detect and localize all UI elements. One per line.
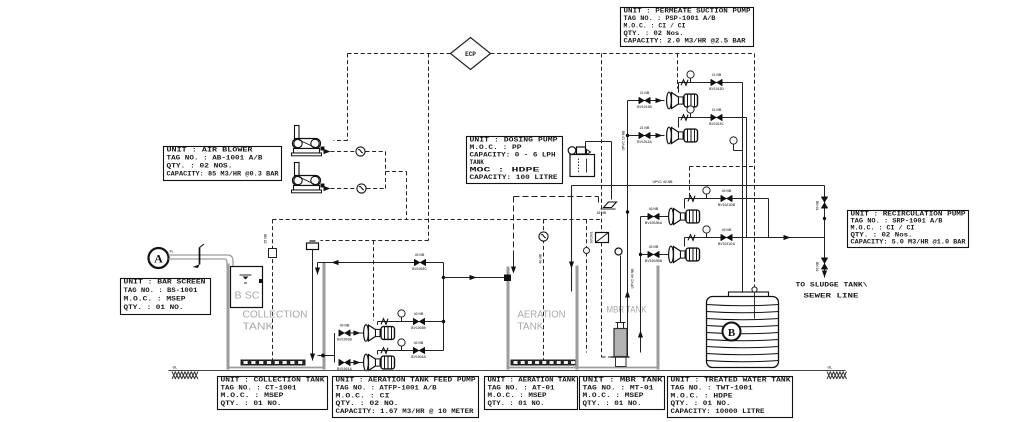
svg-text:40 NB: 40 NB [649, 245, 659, 249]
valve BV1021B sludge top [816, 197, 828, 210]
svg-text:SV1001: SV1001 [590, 231, 594, 243]
svg-text:UPVC 15 NB: UPVC 15 NB [622, 130, 626, 151]
collection tank left wall [227, 264, 230, 370]
control signal wire to ATFP pump [373, 241, 375, 321]
svg-text:TANK: TANK [243, 321, 274, 333]
aeration tank right wall [576, 266, 579, 370]
air blower AB-1001B [292, 163, 331, 193]
info box PSP-1001 permeate suction pump [621, 8, 754, 47]
svg-text:BV1013A: BV1013A [637, 140, 652, 144]
node ATFP header top junction [442, 276, 445, 279]
svg-text:TAG NO. : ATFP-1001 A/B: TAG NO. : ATFP-1001 A/B [336, 385, 437, 392]
svg-text:TAG NO. : CT-1001: TAG NO. : CT-1001 [221, 384, 297, 391]
pump PSP-1001A [667, 92, 698, 109]
aeration tank label [518, 310, 566, 333]
flow indicator on permeate [615, 248, 622, 255]
svg-text:40 NB: 40 NB [340, 324, 350, 328]
svg-text:M.O.C. : PP: M.O.C. : PP [470, 144, 523, 151]
info box BS-1001 bar screen [121, 279, 211, 315]
svg-text:40 NB: 40 NB [539, 253, 543, 263]
TWT level switch [752, 287, 757, 319]
svg-text:QTY. : 01 NO.: QTY. : 01 NO. [488, 400, 545, 407]
check valve ATFP-B [381, 348, 388, 354]
svg-text:UNIT : AERATION TANK: UNIT : AERATION TANK [488, 377, 576, 384]
inlet sewage pipe (double line) [169, 255, 234, 267]
svg-text:M.O.C. : MSEP: M.O.C. : MSEP [221, 392, 285, 399]
svg-text:CAPACITY: 0 - 6 LPH: CAPACITY: 0 - 6 LPH [470, 152, 556, 159]
info box ATFP-1001 aeration tank feed pump [333, 377, 479, 418]
node ATFP header junction [442, 320, 445, 323]
flow arrow PSP-A suction [656, 98, 663, 103]
svg-text:BV1001B: BV1001B [337, 338, 352, 342]
pump SRP-1001A [669, 208, 700, 225]
valve BV1021DB SRP-A discharge [718, 189, 736, 207]
pressure gauge PSP-A [687, 71, 694, 83]
svg-text:UNIT : PERMEATE SUCTION PUM: UNIT : PERMEATE SUCTION PUMP [624, 8, 751, 15]
svg-text:50 NB: 50 NB [816, 261, 820, 271]
svg-text:25 NB: 25 NB [264, 233, 268, 243]
svg-text:MOC : HDPE: MOC : HDPE [470, 167, 541, 174]
svg-text:CAPACITY: 100 LITRE: CAPACITY: 100 LITRE [470, 174, 558, 181]
valve BV1003C on return [412, 253, 427, 271]
collection tank bottom [227, 367, 326, 369]
svg-text:21 NB: 21 NB [640, 91, 650, 95]
valve BV1013B PSP-A suction [637, 91, 652, 109]
info box SRP-1001 recirculation pump [848, 211, 969, 248]
valve BV1002BB SRP-B suction [645, 245, 663, 263]
aeration tank bottom [507, 367, 579, 369]
permeate discharge downcomer [740, 83, 745, 314]
svg-text:UNIT : DOSING PUMP: UNIT : DOSING PUMP [470, 137, 559, 144]
valve BV1003B ATFP-A discharge [411, 312, 426, 330]
svg-text:BV1021DB: BV1021DB [718, 203, 736, 207]
air drop to collection tank diffuser [269, 220, 277, 360]
svg-text:UNIT : COLLECTION TANK: UNIT : COLLECTION TANK [221, 377, 326, 384]
pressure gauge ATFP-B [398, 339, 405, 351]
info box MT-01 MBR tank [580, 377, 665, 410]
info box DP dosing pump [467, 137, 563, 184]
control signal wire to blowers [334, 54, 348, 141]
svg-text:TAG NO. : MT-01: TAG NO. : MT-01 [583, 384, 655, 391]
SRP-A suction wire [641, 216, 670, 218]
permeate wire from module [620, 256, 622, 323]
return wire into collection tank [315, 260, 444, 275]
aeration feed wire [444, 275, 508, 280]
svg-text:21 NB: 21 NB [712, 108, 722, 112]
collection tank level switch [307, 241, 319, 361]
svg-text:TAG NO. : TWT-1001: TAG NO. : TWT-1001 [671, 385, 754, 392]
svg-text:BV1002BA: BV1002BA [645, 221, 663, 225]
MBR tank right wall [657, 266, 660, 370]
svg-text:QTY. : 01 NO.: QTY. : 01 NO. [671, 400, 731, 407]
info box AB-1001 air blower [164, 147, 282, 181]
valve on ATFP-A suction [337, 324, 352, 342]
pressure gauge PSP-B [687, 106, 694, 118]
SRP-A discharge wire [685, 199, 769, 238]
pump ATFP-1001B [364, 354, 395, 371]
svg-text:50 NB: 50 NB [816, 200, 820, 210]
label to sludge tank [796, 282, 869, 300]
info box CT-1001 collection tank [218, 377, 328, 410]
pressure gauge SRP-B [703, 226, 710, 238]
svg-text:TAG NO. : AB-1001 A/B: TAG NO. : AB-1001 A/B [167, 155, 263, 162]
PSP-B suction wire [626, 134, 665, 137]
flexible connector blower B [357, 184, 366, 193]
air header [273, 219, 602, 221]
pressure gauge ATFP-A [398, 310, 405, 322]
SRP-B discharge wire [685, 235, 825, 247]
SRP-B suction wire [639, 253, 670, 256]
air drop to MBR tank diffuser [586, 220, 588, 353]
svg-text:QTY. : 02 Nos.: QTY. : 02 Nos. [624, 30, 684, 37]
svg-text:TO SLUDGE TANK\: TO SLUDGE TANK\ [796, 282, 869, 289]
BSC screen chamber [231, 267, 264, 308]
dosing pump DP [568, 147, 590, 155]
MBR tank bottom [577, 367, 660, 369]
svg-text:40 NB: 40 NB [414, 312, 424, 316]
secondary downcomer [746, 118, 748, 238]
svg-text:BV1002BB: BV1002BB [645, 259, 663, 263]
permeate riser [625, 101, 630, 357]
svg-text:UPVC 40 NB: UPVC 40 NB [631, 268, 635, 289]
off-page connector A [149, 248, 169, 268]
svg-text:TAG NO. : AT-01: TAG NO. : AT-01 [488, 384, 555, 391]
control signal wire ECP horizontal right [491, 53, 755, 55]
PSP-A suction wire [628, 100, 665, 102]
svg-text:BV1003B: BV1003B [411, 326, 426, 330]
wire to ATFP-A [350, 332, 365, 334]
svg-text:BV1013C: BV1013C [709, 122, 724, 126]
svg-text:CAPACITY: 2.0 M3/HR @2.5 BAR: CAPACITY: 2.0 M3/HR @2.5 BAR [624, 37, 746, 44]
svg-text:TAG NO. : BS-1001: TAG NO. : BS-1001 [124, 287, 198, 294]
air pipe blower B to manifold [367, 188, 386, 190]
bar screen symbol [193, 244, 205, 268]
svg-text:TANK: TANK [470, 159, 485, 166]
svg-text:UPVC 40 NB: UPVC 40 NB [653, 180, 674, 184]
tank marker B [723, 323, 741, 341]
ATFP-A discharge wire [378, 322, 444, 326]
svg-text:B: B [728, 327, 736, 339]
svg-text:QTY. : 02 Nos.: QTY. : 02 Nos. [851, 232, 913, 239]
svg-text:B SC: B SC [235, 290, 260, 302]
pump PSP-1001B [667, 127, 698, 144]
control signal wire to collection tank level switch [321, 54, 429, 241]
check valve ATFP-A [381, 319, 388, 325]
PSP-B discharge wire [679, 118, 747, 128]
dosing discharge wire [586, 142, 612, 200]
svg-text:QTY. : 02 NOS.: QTY. : 02 NOS. [167, 163, 233, 170]
info box TWT-1001 treated water tank [668, 377, 793, 418]
recirc suction wire from MBR [638, 217, 643, 353]
air pipe blower A outlet [331, 151, 356, 153]
svg-text:UNIT : TREATED WATER TANK: UNIT : TREATED WATER TANK [671, 377, 792, 384]
svg-text:CAPACITY: 85 M3/HR @0.3 BAR: CAPACITY: 85 M3/HR @0.3 BAR [167, 171, 279, 178]
svg-text:40 NB: 40 NB [414, 341, 424, 345]
svg-text:FL: FL [170, 250, 174, 254]
flexible connector blower A [356, 147, 365, 156]
pump ATFP-1001A [364, 325, 395, 342]
collection tank right wall [323, 263, 326, 370]
svg-text:GL: GL [828, 366, 833, 370]
svg-text:BV1013B: BV1013B [637, 105, 652, 109]
pump SRP-1001B [669, 246, 700, 263]
svg-text:40 NB: 40 NB [722, 189, 732, 193]
svg-text:UNIT : RECIRCULATION PUMP: UNIT : RECIRCULATION PUMP [851, 211, 967, 218]
flow arrow ATFP-B suction [354, 360, 361, 365]
flange at aeration tank wall [504, 275, 511, 282]
valve BV1013D PSP-A discharge [709, 73, 724, 91]
PSP suction riser [627, 101, 629, 186]
svg-text:TAG NO. : SRP-1001 A/B: TAG NO. : SRP-1001 A/B [851, 218, 943, 225]
ground hatch left [172, 372, 198, 380]
svg-text:QTY. : 01 NO.: QTY. : 01 NO. [583, 400, 642, 407]
info box AT-01 aeration tank [485, 377, 578, 410]
valve BV1021A sludge bottom [816, 258, 828, 271]
valve BV1013A PSP-B suction [637, 126, 652, 144]
svg-text:BV1021DA: BV1021DA [718, 242, 736, 246]
svg-text:UNIT : AIR BLOWER: UNIT : AIR BLOWER [167, 147, 254, 154]
svg-text:M.O.C. : MSEP: M.O.C. : MSEP [488, 392, 547, 399]
svg-text:TAG NO. : PSP-1001 A/B: TAG NO. : PSP-1001 A/B [624, 15, 716, 22]
node sludge junction [823, 217, 826, 220]
flex on MBR air drop [584, 248, 590, 254]
check valve PSP-A [681, 80, 688, 86]
air pipe blower B outlet [331, 188, 357, 190]
svg-text:21 NB: 21 NB [640, 126, 650, 130]
dosing tank [570, 155, 595, 177]
svg-text:UNIT : MBR TANK: UNIT : MBR TANK [583, 377, 664, 384]
return drop into aeration tank [569, 186, 574, 292]
svg-text:40 NB: 40 NB [415, 253, 425, 257]
pressure gauge SRP-A [703, 187, 710, 199]
svg-text:CAPACITY: 1.67 M3/HR @ 10 METE: CAPACITY: 1.67 M3/HR @ 10 METER [336, 408, 474, 415]
svg-text:QTY. : 01 NO.: QTY. : 01 NO. [124, 304, 184, 311]
svg-text:M.O.C. : CI / CI: M.O.C. : CI / CI [624, 23, 686, 30]
svg-text:M.O.C. : CI: M.O.C. : CI [336, 392, 391, 399]
valve BV1021DA SRP-B discharge [718, 228, 736, 246]
aeration tank left wall [507, 267, 510, 370]
check valve SRP-A [688, 196, 695, 202]
control signal wire ECP horizontal left [348, 53, 451, 55]
treated water tank TWT-1001 [707, 292, 779, 368]
ATFP suction stub from collection tank [318, 333, 335, 363]
control signal wire to PSP pump [677, 54, 679, 89]
solenoid valve SV-1001 [590, 231, 609, 243]
svg-text:UNIT : AERATION TANK FEED P: UNIT : AERATION TANK FEED PUMP [336, 377, 476, 384]
ATFP-B discharge wire [378, 351, 444, 355]
collection tank label [243, 309, 308, 333]
sludge drain wire [822, 186, 827, 278]
flow arrow ATFP-A suction [354, 330, 361, 335]
air drop to aeration tank diffuser [539, 220, 548, 360]
svg-text:21 NB: 21 NB [712, 73, 722, 77]
svg-text:COLLECTION: COLLECTION [243, 309, 308, 321]
svg-text:QTY. : 01 NO.: QTY. : 01 NO. [221, 400, 282, 407]
svg-text:CAPACITY: 5.0 M3/HR @1.0 BAR: CAPACITY: 5.0 M3/HR @1.0 BAR [851, 239, 966, 246]
gauge on downcomer [730, 137, 743, 151]
svg-text:M.O.C. : CI / CI: M.O.C. : CI / CI [851, 225, 915, 232]
permeate header UPVC 40 NB [572, 185, 825, 187]
aeration tank diffuser [511, 360, 576, 366]
collection tank diffuser [241, 360, 306, 366]
svg-text:BV1013D: BV1013D [709, 87, 724, 91]
valve BV1002BA SRP-A suction [645, 207, 663, 225]
svg-text:ECP: ECP [465, 51, 476, 58]
control signal wire to dosing/solenoid [601, 54, 603, 233]
svg-text:M.O.C. : HDPE: M.O.C. : HDPE [671, 392, 734, 399]
svg-text:M.O.C. : MSEP: M.O.C. : MSEP [124, 296, 187, 303]
svg-text:SEWER LINE: SEWER LINE [804, 293, 860, 300]
control signal branch wire at y166 [690, 167, 755, 197]
flow arrow PSP-B suction [656, 133, 663, 138]
svg-text:18 NB: 18 NB [597, 211, 607, 215]
control signal wire to TWT level switch [754, 54, 756, 287]
valve on ATFP-B suction [337, 359, 352, 371]
PSP-A discharge wire [679, 83, 743, 93]
ECP control panel diamond [451, 38, 491, 70]
air blower AB-1001A [292, 126, 331, 156]
injection quill [597, 202, 617, 215]
svg-text:GL: GL [173, 366, 178, 370]
flange blob over wall [504, 275, 511, 282]
svg-text:CAPACITY: 10000 LITRE: CAPACITY: 10000 LITRE [671, 408, 765, 415]
ground hatch right [827, 372, 847, 380]
check valve PSP-B [681, 115, 688, 121]
air pipe blower A to manifold [366, 151, 386, 153]
ATFP discharge header [443, 263, 445, 351]
svg-text:A: A [154, 252, 163, 266]
svg-text:M.O.C. : MSEP: M.O.C. : MSEP [583, 392, 645, 399]
ground line [169, 370, 846, 372]
svg-text:UNIT : BAR SCREEN: UNIT : BAR SCREEN [124, 279, 207, 286]
air line below solenoid [602, 243, 614, 358]
valve BV1003A ATFP-B discharge [411, 341, 426, 359]
svg-text:BV1003C: BV1003C [412, 267, 427, 271]
svg-text:40 NB: 40 NB [722, 228, 732, 232]
svg-text:QTY. : 02 NO.: QTY. : 02 NO. [336, 400, 399, 407]
valve BV1013C PSP-B discharge [709, 108, 724, 126]
svg-text:40 NB: 40 NB [649, 207, 659, 211]
svg-text:TANK: TANK [518, 322, 544, 333]
dosing chemical line joins feed [511, 197, 599, 274]
svg-text:BV1003A: BV1003A [411, 355, 426, 359]
check valve SRP-B [688, 235, 695, 241]
MBR membrane module [612, 323, 630, 367]
svg-text:AERATION: AERATION [518, 310, 566, 321]
wire to ATFP-B [350, 362, 365, 364]
air manifold riser [386, 152, 407, 220]
